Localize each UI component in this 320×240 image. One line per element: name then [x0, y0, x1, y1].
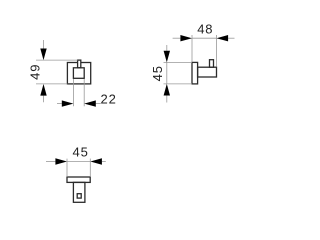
- side view hook arm: [198, 67, 217, 77]
- front view outer plate: [67, 63, 90, 84]
- svg-text:22: 22: [101, 92, 117, 107]
- dim 45 side top arrow: [164, 51, 170, 63]
- side view peg: [210, 60, 214, 67]
- dim 45 top-view line left tail: [46, 161, 55, 163]
- dim 45 top-view left extension line: [66, 159, 68, 177]
- svg-text:45: 45: [150, 65, 165, 81]
- dim 45 top-view line right tail: [102, 161, 106, 163]
- dim 45 side bottom extension line: [164, 83, 193, 85]
- dim 45 top-view right arrow: [90, 158, 102, 164]
- front view peg tab: [78, 60, 81, 68]
- top view hook arm: [73, 182, 85, 202]
- dim 49 top arrow: [40, 49, 46, 61]
- front view hook arm (inner square): [73, 68, 84, 79]
- dim 45 top-view line middle span: [67, 161, 90, 163]
- dim 48 right extension line: [216, 35, 218, 67]
- dim 48 line middle span: [192, 37, 217, 39]
- svg-text:49: 49: [27, 64, 42, 80]
- dim 45 side line bottom tail: [166, 96, 168, 103]
- dim 22 line left tail: [57, 103, 62, 105]
- dim 48 left arrow: [180, 35, 192, 41]
- dim 45 side line top tail: [166, 45, 168, 51]
- dim 49 top extension line: [36, 59, 78, 61]
- dim 49 line bottom tail: [43, 96, 45, 103]
- dim 49 bottom extension line: [36, 83, 67, 85]
- svg-text:45: 45: [72, 144, 88, 159]
- dim 48 left extension line: [191, 35, 193, 62]
- dim 22 right extension line: [83, 79, 85, 106]
- dim 22 right arrow: [84, 100, 96, 106]
- dim 48 right arrow: [217, 35, 229, 41]
- dim 45 side line middle span: [166, 62, 168, 84]
- dim 45 top-view left arrow: [55, 158, 67, 164]
- dim 22 left extension line: [72, 79, 74, 106]
- dim 49 bottom arrow: [40, 84, 46, 96]
- dim 22 left arrow: [62, 100, 74, 106]
- dim 45 side bottom arrow: [164, 84, 170, 96]
- dim 45 side top extension line: [164, 61, 193, 63]
- dim 22 line right tail: [96, 103, 101, 105]
- dim 49 line top tail: [43, 40, 45, 49]
- dim 48 line left tail: [173, 37, 181, 39]
- svg-text:48: 48: [197, 22, 213, 37]
- top view wall plate: [67, 177, 90, 182]
- dim 48 line right tail: [228, 37, 234, 39]
- top view peg: [77, 194, 81, 198]
- dim 45 top-view right extension line: [89, 159, 91, 177]
- side view wall plate: [192, 62, 198, 84]
